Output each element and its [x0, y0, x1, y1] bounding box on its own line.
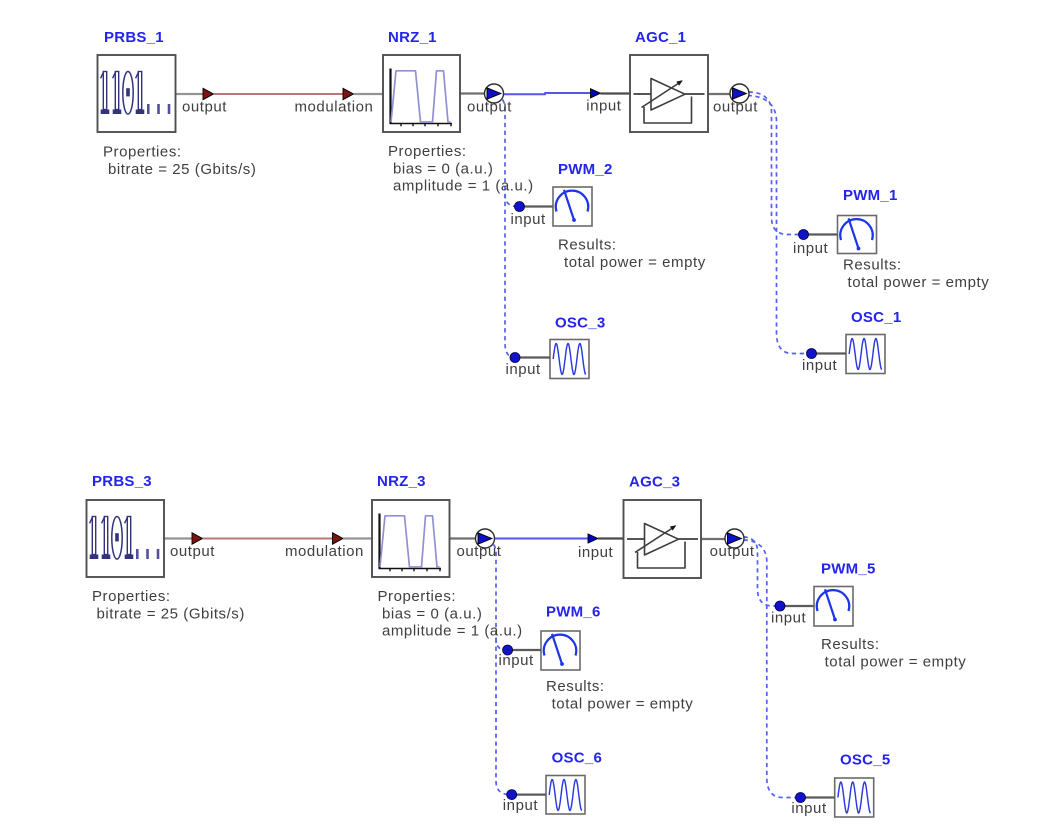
svg-text:input: input: [802, 357, 838, 374]
svg-text:AGC_3: AGC_3: [629, 473, 680, 490]
svg-text:total power = empty: total power = empty: [825, 653, 967, 670]
svg-text:modulation: modulation: [295, 99, 374, 116]
svg-text:input: input: [499, 652, 535, 669]
svg-text:Results:: Results:: [558, 237, 617, 254]
svg-text:OSC_3: OSC_3: [555, 315, 605, 332]
svg-text:PWM_2: PWM_2: [558, 161, 613, 178]
svg-text:total power = empty: total power = empty: [564, 254, 706, 271]
svg-text:output: output: [170, 543, 215, 560]
svg-text:output: output: [467, 99, 512, 116]
svg-text:output: output: [713, 99, 758, 116]
svg-text:Results:: Results:: [546, 678, 605, 695]
svg-text:input: input: [793, 240, 829, 257]
svg-text:Results:: Results:: [821, 636, 880, 653]
svg-text:Results:: Results:: [843, 257, 902, 274]
svg-text:Properties:: Properties:: [388, 143, 467, 160]
svg-text:output: output: [182, 99, 227, 116]
svg-text:AGC_1: AGC_1: [635, 29, 686, 46]
svg-text:input: input: [511, 211, 547, 228]
svg-text:OSC_6: OSC_6: [552, 750, 602, 767]
svg-text:output: output: [710, 543, 755, 560]
svg-text:PWM_5: PWM_5: [821, 561, 876, 578]
svg-text:bitrate = 25 (Gbits/s): bitrate = 25 (Gbits/s): [108, 161, 256, 178]
svg-text:NRZ_3: NRZ_3: [377, 473, 426, 490]
svg-text:PWM_6: PWM_6: [546, 604, 601, 621]
svg-text:output: output: [457, 543, 502, 560]
svg-text:PRBS_3: PRBS_3: [92, 473, 152, 490]
svg-text:PRBS_1: PRBS_1: [104, 29, 164, 46]
svg-text:amplitude = 1 (a.u.): amplitude = 1 (a.u.): [382, 623, 523, 640]
svg-text:input: input: [506, 361, 542, 378]
svg-text:Properties:: Properties:: [378, 588, 457, 605]
svg-text:input: input: [503, 797, 539, 814]
svg-text:total power = empty: total power = empty: [848, 274, 990, 291]
svg-text:Properties:: Properties:: [103, 144, 182, 161]
svg-text:bitrate = 25 (Gbits/s): bitrate = 25 (Gbits/s): [97, 605, 245, 622]
svg-text:Properties:: Properties:: [92, 588, 171, 605]
svg-text:bias = 0 (a.u.): bias = 0 (a.u.): [393, 160, 493, 177]
svg-text:input: input: [771, 610, 807, 627]
svg-text:OSC_1: OSC_1: [851, 309, 901, 326]
svg-text:NRZ_1: NRZ_1: [388, 29, 437, 46]
svg-text:amplitude = 1 (a.u.): amplitude = 1 (a.u.): [393, 178, 534, 195]
svg-text:OSC_5: OSC_5: [840, 752, 890, 769]
svg-text:input: input: [578, 544, 614, 561]
svg-text:input: input: [791, 800, 827, 817]
svg-text:bias = 0 (a.u.): bias = 0 (a.u.): [382, 605, 482, 622]
svg-text:modulation: modulation: [285, 543, 364, 560]
svg-text:input: input: [586, 98, 622, 115]
svg-text:PWM_1: PWM_1: [843, 187, 898, 204]
svg-text:total power = empty: total power = empty: [552, 695, 694, 712]
